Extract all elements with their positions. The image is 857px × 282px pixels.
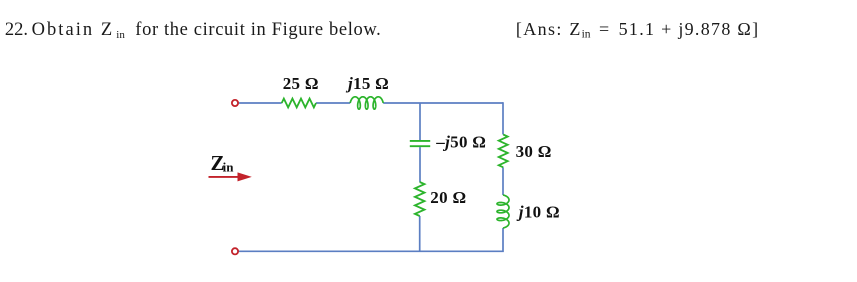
- Zin arrow: [209, 172, 252, 181]
- svg-text:Z: Z: [569, 19, 580, 39]
- resistor 20ohm: [415, 182, 425, 216]
- svg-text:for the circuit in Figure belo: for the circuit in Figure below.: [135, 20, 380, 40]
- svg-text:Obtain Z: Obtain Z: [32, 20, 113, 40]
- label Zin: [211, 151, 235, 175]
- svg-text:22.: 22.: [5, 20, 28, 40]
- inductor j10ohm: [497, 195, 509, 228]
- wire middle branch between capacitor and resistor: [419, 147, 421, 182]
- svg-text:20 Ω: 20 Ω: [430, 188, 466, 207]
- svg-text:=: =: [599, 19, 609, 39]
- svg-text:25 Ω: 25 Ω: [283, 74, 319, 93]
- wire right branch lower and bottom wire: [239, 228, 503, 251]
- svg-text:in: in: [223, 159, 235, 174]
- wire top: terminal to resistor: [239, 102, 282, 104]
- terminal top-left: [232, 100, 238, 106]
- svg-text:51.1 + j9.878 Ω]: 51.1 + j9.878 Ω]: [619, 19, 759, 39]
- wire top: resistor to inductor: [316, 102, 350, 104]
- svg-text:[Ans:: [Ans:: [516, 19, 562, 39]
- svg-text:in: in: [582, 29, 591, 41]
- capacitor -j50ohm plate top: [410, 140, 430, 142]
- capacitor -j50ohm plate bottom: [410, 145, 430, 147]
- svg-text:in: in: [116, 29, 125, 41]
- wire right branch upper: [502, 102, 504, 134]
- svg-text:j15 Ω: j15 Ω: [345, 74, 389, 93]
- svg-text:–j50 Ω: –j50 Ω: [435, 133, 486, 152]
- svg-text:30 Ω: 30 Ω: [516, 142, 552, 161]
- resistor 30ohm: [499, 135, 508, 168]
- svg-text:j10 Ω: j10 Ω: [516, 203, 560, 222]
- inductor j15ohm: [350, 97, 383, 109]
- problem statement text: [5, 20, 381, 41]
- terminal bottom-left: [232, 248, 238, 254]
- wire right branch middle: [502, 167, 504, 195]
- wire middle branch upper: [419, 103, 421, 140]
- wire middle branch lower: [419, 216, 421, 251]
- resistor 25ohm: [282, 99, 316, 108]
- wire top: inductor to top-right corner: [383, 102, 503, 104]
- answer text: [516, 19, 758, 41]
